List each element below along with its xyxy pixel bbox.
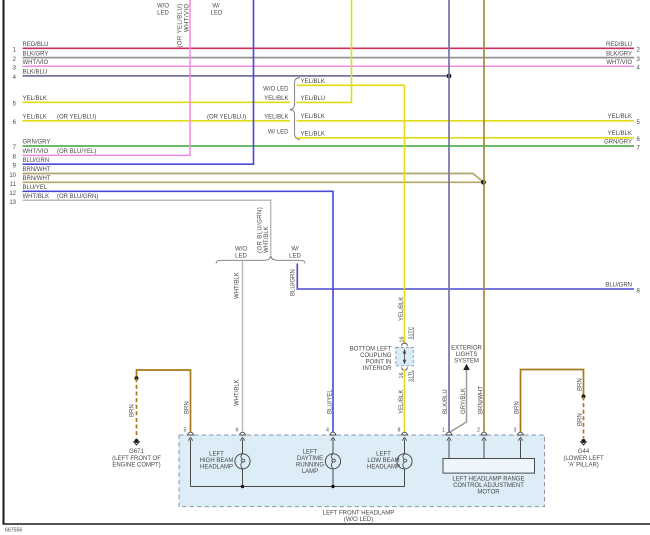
EXTERIOR LIGHTS SYSTEM off-page arrow bbox=[451, 346, 482, 370]
internal wire pin6 to bulb bbox=[242, 440, 244, 454]
wire 9 BLU/GRN with vertical riser to top bbox=[13, 0, 254, 169]
svg-text:2: 2 bbox=[477, 428, 480, 434]
junction node G44 branch bbox=[582, 395, 586, 399]
svg-text:POINT IN: POINT IN bbox=[366, 360, 392, 366]
ground G44 symbol bbox=[563, 439, 604, 469]
svg-text:HEADLAMP: HEADLAMP bbox=[367, 464, 400, 470]
wire 7 GRN/GRY bbox=[13, 140, 641, 152]
bulb LEFT HIGH BEAM HEADLAMP bbox=[200, 451, 250, 470]
wire YEL/BLK vertical to pin 8 (lower part) bbox=[404, 370, 406, 433]
svg-text:HEADLAMP: HEADLAMP bbox=[200, 464, 233, 470]
svg-text:6: 6 bbox=[236, 428, 239, 434]
wire YEL/BLK branch 4 (W/ LED) to right edge bbox=[297, 131, 641, 143]
svg-text:5: 5 bbox=[184, 428, 187, 434]
svg-text:'A' PILLAR): 'A' PILLAR) bbox=[568, 463, 599, 469]
svg-text:LAMP: LAMP bbox=[302, 469, 318, 475]
svg-text:DAYTIME: DAYTIME bbox=[297, 456, 323, 462]
svg-text:W/: W/ bbox=[291, 247, 299, 253]
svg-text:3: 3 bbox=[514, 428, 517, 434]
svg-text:RUNNING: RUNNING bbox=[296, 463, 324, 469]
svg-text:RED/BLU: RED/BLU bbox=[606, 42, 632, 48]
svg-text:(LEFT FRONT OF: (LEFT FRONT OF bbox=[112, 456, 161, 462]
svg-text:LED: LED bbox=[235, 254, 247, 260]
svg-text:(OR BLU/YEL): (OR BLU/YEL) bbox=[57, 149, 96, 155]
ground G671 dashed lead bbox=[136, 378, 138, 438]
svg-text:YEL/BLK: YEL/BLK bbox=[399, 297, 405, 321]
wire 8 WHT/VIO with vertical riser to top bbox=[13, 0, 190, 161]
svg-text:(W/O LED): (W/O LED) bbox=[344, 517, 373, 523]
pin 5 bbox=[184, 428, 194, 441]
svg-text:YEL/BLK: YEL/BLK bbox=[264, 96, 288, 102]
svg-text:BLK/GRY: BLK/GRY bbox=[23, 51, 49, 57]
svg-text:WHT/VIO: WHT/VIO bbox=[23, 149, 49, 155]
ground G44 wiring BRN bbox=[514, 370, 583, 433]
motor internal wires pins 1,2,3 bbox=[448, 440, 450, 459]
internal wire pin8 to bulb bbox=[404, 440, 406, 454]
page border left bbox=[3, 0, 5, 524]
ground G44 dashed lead bbox=[583, 397, 585, 439]
svg-text:LEFT: LEFT bbox=[209, 451, 224, 457]
svg-text:YEL/BLK: YEL/BLK bbox=[608, 114, 632, 120]
svg-text:16: 16 bbox=[399, 337, 405, 343]
page border bottom bbox=[3, 523, 650, 525]
wire 11 BRN/WHT bbox=[10, 176, 484, 188]
motor LEFT HEADLAMP RANGE CONTROL ADJUSTMENT MOTOR bbox=[443, 459, 535, 496]
svg-text:YEL/BLK: YEL/BLK bbox=[301, 79, 325, 85]
svg-text:EXTERIOR: EXTERIOR bbox=[451, 346, 482, 352]
svg-text:W/O LED: W/O LED bbox=[263, 86, 289, 92]
svg-text:YEL/BLU: YEL/BLU bbox=[301, 96, 326, 102]
svg-text:WHT/BLK: WHT/BLK bbox=[234, 272, 240, 299]
svg-text:BRN: BRN bbox=[577, 378, 583, 391]
svg-text:11: 11 bbox=[10, 182, 17, 188]
in-line connector 16 on YEL/BLK bbox=[396, 326, 415, 382]
wire BLK/BLU vertical to pin 1 bbox=[448, 0, 450, 432]
svg-text:GRY/BLK: GRY/BLK bbox=[461, 388, 467, 414]
svg-text:13: 13 bbox=[9, 200, 16, 206]
svg-text:10: 10 bbox=[9, 173, 16, 179]
wire 12 BLU/YEL to pin 4 bbox=[9, 185, 333, 432]
junction node G671 branch bbox=[135, 376, 139, 380]
internal wire pin5 to bus bbox=[190, 440, 192, 487]
svg-text:YEL/BLK: YEL/BLK bbox=[264, 115, 288, 121]
svg-text:1: 1 bbox=[442, 428, 445, 434]
svg-text:LEFT: LEFT bbox=[376, 451, 391, 457]
svg-text:YEL/BLK: YEL/BLK bbox=[23, 115, 47, 121]
wire 10 BRN/WHT with merge diagonal bbox=[9, 167, 483, 182]
internal wire pin4 to bulb bbox=[332, 440, 334, 454]
ground G671 symbol bbox=[112, 439, 161, 469]
svg-text:WHT/BLK: WHT/BLK bbox=[264, 226, 270, 253]
wire 13 WHT/BLK to split brace bbox=[9, 194, 270, 255]
wire 1 RED/BLU bbox=[13, 42, 641, 54]
svg-text:RED/BLU: RED/BLU bbox=[23, 42, 49, 48]
svg-text:LEFT FRONT HEADLAMP: LEFT FRONT HEADLAMP bbox=[323, 510, 394, 516]
svg-text:BRN: BRN bbox=[184, 401, 190, 414]
svg-text:LIGHTS: LIGHTS bbox=[456, 352, 478, 358]
label BOTTOM LEFT COUPLING POINT IN INTERIOR bbox=[350, 347, 393, 373]
brace (vertical, LED variants) bbox=[290, 78, 300, 140]
svg-text:W/O: W/O bbox=[235, 247, 247, 253]
svg-text:BRN: BRN bbox=[514, 401, 520, 414]
wire 4 BLK/BLU bbox=[13, 70, 449, 82]
svg-text:BRN/WHT: BRN/WHT bbox=[479, 386, 485, 414]
svg-text:G671: G671 bbox=[129, 449, 144, 455]
svg-text:BLU/GRN: BLU/GRN bbox=[23, 158, 50, 164]
wire BLU/GRN branch to right edge bbox=[290, 264, 640, 297]
svg-text:(OR YEL/BLU): (OR YEL/BLU) bbox=[178, 4, 184, 48]
svg-text:CONTROL ADJUSTMENT: CONTROL ADJUSTMENT bbox=[453, 483, 524, 489]
junction node bus/daytime bbox=[331, 485, 334, 488]
svg-text:667556: 667556 bbox=[5, 528, 22, 534]
svg-text:W/O: W/O bbox=[157, 4, 169, 10]
svg-text:BLK/BLU: BLK/BLU bbox=[443, 389, 449, 414]
svg-text:(LOWER LEFT: (LOWER LEFT bbox=[563, 456, 604, 462]
svg-text:(OR BLU/GRN): (OR BLU/GRN) bbox=[258, 207, 264, 253]
svg-text:YEL/BLK: YEL/BLK bbox=[399, 390, 405, 414]
wire YEL/BLK branch 3 to right edge bbox=[297, 114, 641, 126]
svg-text:LED: LED bbox=[157, 11, 169, 17]
svg-text:BOTTOM LEFT: BOTTOM LEFT bbox=[350, 347, 392, 353]
svg-text:BRN: BRN bbox=[129, 404, 135, 417]
pin 3 bbox=[514, 428, 524, 441]
pin 8 bbox=[398, 428, 408, 441]
svg-text:BRN/WHT: BRN/WHT bbox=[23, 167, 51, 173]
svg-text:BRN: BRN bbox=[577, 413, 583, 426]
svg-text:BLU/YEL: BLU/YEL bbox=[23, 185, 48, 191]
svg-text:8: 8 bbox=[398, 428, 401, 434]
wire YEL/BLU branch (W/O LED) going to top bbox=[297, 0, 352, 102]
svg-text:YEL/BLK: YEL/BLK bbox=[301, 114, 325, 120]
pin 1 bbox=[442, 428, 452, 441]
junction node bus/high-beam bbox=[241, 485, 244, 488]
wire YEL/BLK branch 1 (W/O LED) to low-beam drop bbox=[297, 79, 405, 86]
component box LEFT FRONT HEADLAMP (W/O LED) bbox=[179, 435, 545, 507]
svg-text:BRN/WHT: BRN/WHT bbox=[23, 176, 51, 182]
wire 3 WHT/VIO bbox=[13, 60, 641, 72]
svg-text:W/ LED: W/ LED bbox=[268, 130, 289, 136]
svg-text:WHT/BLK: WHT/BLK bbox=[23, 194, 50, 200]
svg-text:MOTOR: MOTOR bbox=[477, 490, 500, 496]
wire WHT/BLK branch to pin 6 bbox=[234, 261, 242, 432]
ground G671 wiring BRN bbox=[129, 370, 190, 432]
svg-text:YEL/BLK: YEL/BLK bbox=[608, 131, 632, 137]
svg-text:12: 12 bbox=[9, 191, 16, 197]
junction node wire4 / BLK-BLU vertical bbox=[447, 74, 452, 79]
svg-text:WHT/BLK: WHT/BLK bbox=[234, 379, 240, 406]
svg-text:LEFT HEADLAMP RANGE: LEFT HEADLAMP RANGE bbox=[452, 477, 524, 483]
svg-text:GRN/GRY: GRN/GRY bbox=[23, 140, 51, 146]
svg-text:LOW BEAM: LOW BEAM bbox=[367, 458, 399, 464]
wire GRY/BLK from arrow to pin 1 bbox=[450, 370, 467, 432]
svg-text:BLK/GRY: BLK/GRY bbox=[606, 51, 632, 57]
svg-text:(OR YEL/BLU): (OR YEL/BLU) bbox=[207, 115, 246, 121]
svg-text:LED: LED bbox=[289, 254, 301, 260]
split brace (horizontal) for wire 13 bbox=[216, 256, 305, 264]
internal bus line bbox=[191, 486, 405, 488]
svg-text:BLU/GRN: BLU/GRN bbox=[290, 269, 296, 296]
svg-text:(OR BLU/GRN): (OR BLU/GRN) bbox=[57, 194, 98, 200]
bulb LEFT LOW BEAM HEADLAMP bbox=[367, 451, 412, 470]
svg-text:(OR YEL/BLU): (OR YEL/BLU) bbox=[57, 115, 96, 121]
bulb LEFT DAYTIME RUNNING LAMP bbox=[296, 450, 341, 476]
svg-text:ENGINE COMPT): ENGINE COMPT) bbox=[112, 463, 160, 469]
svg-text:G44: G44 bbox=[578, 449, 590, 455]
svg-text:BLK/BLU: BLK/BLU bbox=[23, 70, 48, 76]
svg-text:BLU/GRN: BLU/GRN bbox=[605, 283, 632, 289]
svg-text:INTERIOR: INTERIOR bbox=[363, 366, 392, 372]
svg-text:SYSTEM: SYSTEM bbox=[454, 359, 479, 365]
svg-text:YEL/BLK: YEL/BLK bbox=[23, 96, 47, 102]
svg-text:LEFT: LEFT bbox=[303, 450, 318, 456]
wire BRN/WHT vertical to pin 2 bbox=[483, 0, 485, 432]
svg-text:GRN/GRY: GRN/GRY bbox=[604, 140, 632, 146]
pin 6 bbox=[236, 428, 246, 441]
junction node BRN/WHT merge bbox=[481, 180, 486, 185]
pin 2 bbox=[477, 428, 487, 441]
svg-text:HIGH BEAM: HIGH BEAM bbox=[200, 458, 234, 464]
svg-text:4: 4 bbox=[326, 428, 329, 434]
svg-text:WHT/VIO: WHT/VIO bbox=[23, 60, 49, 66]
wire 6 YEL/BLK (left) bbox=[13, 115, 290, 127]
svg-text:LED: LED bbox=[211, 11, 223, 17]
svg-text:BLU/YEL: BLU/YEL bbox=[328, 389, 334, 414]
wire YEL/BLK vertical to pin 8 (upper part) bbox=[404, 85, 406, 343]
pin 4 bbox=[326, 428, 336, 441]
wire 5 YEL/BLK (left) bbox=[13, 96, 290, 108]
svg-text:WHT/VIO: WHT/VIO bbox=[606, 60, 632, 66]
svg-text:COUPLING: COUPLING bbox=[360, 353, 392, 359]
svg-text:W/: W/ bbox=[212, 4, 220, 10]
wire 2 BLK/GRY bbox=[13, 51, 641, 63]
svg-text:WHT/VIO: WHT/VIO bbox=[185, 4, 191, 32]
svg-text:YEL/BLK: YEL/BLK bbox=[301, 131, 325, 137]
